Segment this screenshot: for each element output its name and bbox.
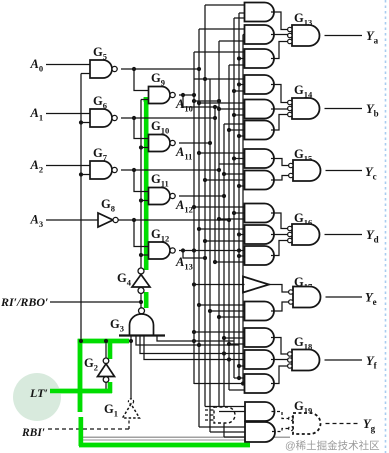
wire RI RBO input — [50, 301, 141, 303]
junction enable at G11 — [139, 198, 143, 202]
wire b3 input 1 — [224, 123, 245, 125]
wire G4 input — [140, 294, 142, 308]
matrix vertical v11 — [242, 35, 244, 385]
green wire bottom rail — [79, 443, 250, 448]
wire a1 input 2 — [239, 12, 245, 14]
inverter G1 dashed — [128, 399, 133, 404]
wire d1 input 3 — [219, 218, 245, 220]
page border dashed blue — [385, 0, 387, 453]
junction on left bus at G7 — [79, 172, 83, 176]
wire f3 to G18 — [271, 366, 288, 384]
wire G6 output — [121, 117, 215, 119]
junction A10 aux second start — [181, 93, 185, 97]
wire a3 input 2 junction — [237, 56, 241, 60]
wire a3 input 3 — [229, 64, 245, 66]
wire G2 output rail — [81, 340, 131, 342]
wire A12 output — [179, 195, 224, 197]
matrix vertical v2 — [198, 29, 200, 427]
wire d3 to G16 — [271, 241, 288, 256]
wire d1 input 2 — [234, 212, 245, 214]
wire stub into G5 lower input — [81, 73, 90, 75]
junction A13 line — [192, 248, 196, 252]
junction A13 line cross — [237, 248, 241, 252]
wire g0 input 1 dashed — [205, 409, 214, 411]
matrix vertical v10 — [238, 13, 240, 378]
inverter G2 — [103, 358, 109, 364]
wire G2 input — [105, 382, 107, 391]
wire f1 input 2 junction — [222, 336, 226, 340]
wire G8 to G12 input — [134, 220, 149, 247]
wire b3 input 3 junction — [237, 134, 241, 138]
wire e2 input 2 — [210, 310, 245, 312]
wire b3 input 2 junction — [227, 128, 231, 132]
wire f1 input 1 junction — [192, 330, 196, 334]
wire a1 to G13 — [271, 12, 288, 30]
wire f2 input 3 — [239, 365, 245, 367]
wire g2 input 2 — [210, 431, 245, 433]
wire g2 input 1 — [199, 426, 245, 428]
wire e1 to G17 — [269, 285, 289, 293]
and gate b1 — [245, 75, 275, 94]
junction G2 output redraw — [104, 339, 108, 343]
junction G6 output at matrix — [213, 116, 217, 120]
junction blanking a — [197, 343, 201, 347]
junction G5 output at matrix — [197, 67, 201, 71]
wire d1 to G16 — [271, 213, 288, 229]
nand G5 — [90, 60, 112, 78]
wire b2 input 2 junction — [217, 107, 221, 111]
and gate d2 — [245, 225, 275, 244]
wire c1 input 1 junction — [197, 151, 201, 155]
wire Ya output — [325, 35, 363, 37]
matrix vertical v3 — [204, 5, 206, 407]
blanking wire a — [136, 336, 239, 346]
wire b2 to G14 — [271, 108, 288, 111]
nand G12 — [149, 242, 171, 259]
wire c1 input 3 — [219, 163, 245, 165]
green stub into G9 — [144, 97, 150, 102]
wire d2 input 2 — [239, 234, 245, 236]
matrix vertical v7 — [223, 124, 225, 437]
wire b3 to G14 — [271, 115, 288, 131]
junction G2 output — [104, 339, 108, 343]
wire g1 input 1 — [205, 406, 245, 408]
matrix vertical v8 — [228, 65, 230, 390]
green wire G4 output up — [144, 97, 149, 270]
wire d3 input 3 — [215, 261, 245, 263]
wire A13 aux — [183, 251, 205, 259]
wire c1 input 1 — [199, 152, 245, 154]
wire A11 output — [179, 142, 210, 144]
and gate g2 — [245, 422, 275, 442]
and gate d3 — [245, 246, 275, 265]
wire f3 input 3 — [229, 389, 245, 391]
wire G5 to G9 input — [134, 69, 149, 91]
junction A13 aux start — [181, 248, 185, 252]
junction blanking d — [192, 339, 196, 343]
wire a2 input 3 — [219, 40, 245, 42]
green wire LT input overlay — [50, 389, 112, 394]
green wire G3 to G4 to NAND column — [144, 292, 149, 308]
wire c2 input 1 junction — [222, 172, 226, 176]
input wire A2 — [46, 165, 90, 167]
gray bottom rail 2 — [83, 439, 250, 441]
buffer e1 — [243, 277, 269, 293]
junction G7 output — [132, 168, 136, 172]
wire G11 lower input stub — [141, 200, 149, 202]
wire RBI to G1 dashed — [128, 419, 130, 429]
wire b3 input 2 — [229, 129, 245, 131]
junction A11 at matrix — [208, 141, 212, 145]
wire b2 input 1 junction — [197, 101, 201, 105]
wire b1 input 1 — [194, 78, 245, 80]
nand G15 — [293, 160, 321, 181]
wire b3 input 3 — [239, 135, 245, 137]
junction A10 aux second cross — [213, 105, 217, 109]
and gate g1 — [245, 402, 275, 421]
and gate f2 — [245, 350, 275, 369]
matrix vertical v1 — [193, 52, 195, 384]
wire G5 output — [121, 68, 199, 70]
junction A12 at matrix — [222, 194, 226, 198]
and gate f3 — [245, 374, 275, 393]
svg-text:LT′: LT′ — [29, 386, 48, 400]
wire a2 to G13 — [271, 35, 288, 36]
gray bottom rail — [83, 436, 290, 438]
green wire G2 to G3 — [78, 339, 129, 344]
junction G7 output at matrix — [217, 168, 221, 172]
wire A10 output — [179, 94, 194, 96]
wire b1 input 3 — [234, 90, 245, 92]
junction A10 main — [192, 93, 196, 97]
wire G10 lower input stub — [141, 147, 149, 149]
wire a3 input 1 — [194, 51, 245, 53]
wire e1 input junction — [192, 282, 196, 286]
junction f3 input 1 at v10 — [237, 376, 241, 380]
and gate f1 — [245, 328, 275, 347]
and gate b2 — [245, 100, 275, 119]
and gate c2 — [245, 171, 275, 190]
LT watermark circle — [13, 373, 61, 421]
junction enable at G10 — [139, 145, 143, 149]
wire b2 input 2 — [219, 108, 245, 110]
nand G10 — [149, 135, 171, 152]
wire G9 lower input stub — [141, 99, 149, 101]
wire G4 output bus — [140, 100, 142, 268]
matrix vertical v6 — [218, 41, 220, 412]
wire d1 input 1 — [194, 206, 245, 208]
wire d3 input 2 junction — [237, 254, 241, 258]
wire d2 input 3 junction — [203, 239, 207, 243]
wire g1 input 2 — [219, 411, 245, 413]
wire b2 input 3 junction — [232, 113, 236, 117]
green wire LT input — [50, 389, 112, 394]
wire f1 to G18 — [271, 338, 288, 355]
wire b1 input 2 junction — [237, 82, 241, 86]
G3 input bar — [119, 334, 165, 336]
matrix vertical v5 — [214, 107, 216, 262]
wire f1 input 3 — [229, 343, 245, 345]
nand G16 — [292, 224, 320, 245]
wire d1 input 3 junction — [217, 217, 221, 221]
wire c2 input 3 junction — [237, 184, 241, 188]
wire c2 to G15 — [271, 176, 289, 181]
wire left vertical bus — [80, 74, 82, 342]
wire c1 to G15 — [271, 159, 289, 166]
wire f3 input 2 — [194, 383, 245, 385]
wire d2 input 2 junction — [237, 232, 241, 236]
wire G7 to G11 input — [134, 170, 149, 192]
inverter G8 — [98, 213, 113, 227]
wire RBI input dashed — [48, 428, 129, 430]
junction blanking b — [222, 351, 226, 355]
junction A10 aux — [192, 99, 196, 103]
green wire left vertical — [78, 339, 83, 412]
wire G12 lower input stub — [141, 254, 149, 256]
wire a2 input 1 — [199, 28, 245, 30]
wire f2 input 3 junction — [237, 364, 241, 368]
wire g2 to G19 dashed — [272, 429, 289, 432]
wire stub into G7 lower input — [81, 174, 90, 176]
wire d1 input 1 junction — [192, 205, 196, 209]
green wire G2 input — [108, 382, 113, 393]
junction on left bus at G6 — [79, 120, 83, 124]
junction G8 output at matrix — [227, 218, 231, 222]
wire stub into G6 lower input — [81, 122, 90, 124]
wire a2 input 2 — [243, 34, 245, 36]
wire e2 input 1 — [199, 304, 245, 306]
wire Yb output — [325, 108, 363, 110]
wire G2 output vertical — [105, 341, 107, 358]
wire c2 input 2 — [205, 179, 245, 181]
and G3 — [139, 308, 145, 314]
green wire G2 to G3 overlay — [78, 339, 129, 344]
wire G6 to G10 input — [134, 118, 149, 139]
wire f1 input 1 — [194, 331, 245, 333]
input wire A0 — [46, 64, 90, 66]
nand G11 — [149, 188, 171, 205]
junction G5 output — [132, 67, 136, 71]
wire Yc output — [326, 170, 363, 172]
wire e2 input 3 — [219, 316, 245, 318]
wire Yd output — [325, 234, 363, 236]
wire f1 input 3 junction — [227, 342, 231, 346]
blanking wire b — [140, 336, 245, 354]
svg-text:RBI′: RBI′ — [21, 427, 45, 439]
wire a3 input 2 — [239, 58, 245, 60]
wire g0 input 3 dashed — [205, 419, 214, 421]
wire f3 input 1 — [234, 377, 245, 379]
wire b2 input 1 — [199, 102, 245, 104]
and gate a2 — [245, 25, 275, 44]
junction rail to G1 wire — [129, 339, 133, 343]
wire c2 input 2 junction — [203, 178, 207, 182]
and gate b3 — [245, 121, 275, 140]
wire A13 output — [179, 250, 245, 252]
nand G18 — [292, 350, 320, 371]
wire b2 input 3 — [234, 114, 245, 116]
wire b1 to G14 — [271, 85, 288, 103]
junction G6 output — [132, 116, 136, 120]
wire f2 to G18 — [271, 359, 288, 362]
wire d2 input 1 — [199, 228, 245, 230]
wire A10 aux — [194, 100, 219, 102]
junction A13 aux end — [203, 256, 207, 260]
junction d3 input 3 start — [213, 260, 217, 264]
green wire left vertical lower overlay — [79, 417, 84, 446]
junction G8 output — [132, 218, 136, 222]
blanking wire c — [144, 336, 245, 360]
junction enable at G12 — [139, 253, 143, 257]
green wire G2 output — [108, 339, 113, 359]
and gate e2 — [245, 302, 275, 321]
buffer G4 — [138, 268, 144, 274]
and gate a3 — [245, 49, 275, 68]
svg-text:@稀土掘金技术社区: @稀土掘金技术社区 — [285, 439, 380, 452]
wire a1 input 3 — [234, 17, 245, 19]
nand G17 — [293, 287, 321, 308]
blanking wire d — [157, 336, 234, 342]
nand G13 — [292, 25, 320, 46]
wire f1 input 2 — [224, 337, 245, 339]
wire LT input — [50, 390, 106, 392]
wire a3 to G13 — [271, 42, 288, 59]
wire e1 input — [194, 284, 245, 286]
nand G14 — [292, 98, 320, 119]
wire d2 input 3 — [205, 240, 245, 242]
junction blanking c — [227, 357, 231, 361]
nand G19 — [293, 413, 321, 434]
wire e2 to G17 — [271, 302, 289, 311]
green wire bottom rail overlay — [79, 443, 250, 448]
wire g2 input 3 — [224, 436, 245, 438]
green wire left vertical lower — [79, 417, 84, 446]
junction G2 output rail redraw — [79, 339, 83, 343]
svg-text:RI′/RBO′: RI′/RBO′ — [0, 295, 48, 309]
wire Yf output — [325, 359, 363, 361]
and gate c1 — [245, 149, 274, 168]
wire c1 input 2 junction — [232, 156, 236, 160]
and gate g0 dashed — [214, 407, 235, 423]
wire b1 input 2 — [239, 84, 245, 86]
wire g1 to G19 dashed — [272, 412, 289, 419]
wire d2 input 1 junction — [197, 227, 201, 231]
junction at G2 output rail — [79, 339, 83, 343]
wire c2 input 3 — [239, 185, 245, 187]
wire d2 to G16 — [271, 234, 288, 236]
wire g0 input 2 dashed — [205, 414, 214, 416]
wire d3 input 2 — [239, 255, 245, 257]
junction A10 aux at v6 — [217, 99, 221, 103]
junction b1 input 1 at v3 — [203, 77, 207, 81]
matrix vertical v9 — [233, 18, 235, 378]
wire G8 output — [118, 219, 229, 221]
wire b1 input 3 junction — [232, 89, 236, 93]
wire Yg output dashed — [326, 423, 360, 425]
nand G6 — [90, 109, 112, 127]
wire a1 input 1 — [205, 4, 245, 6]
input wire A1 — [46, 113, 90, 115]
wire G7 output — [121, 169, 219, 171]
wire d1 input 2 junction — [232, 211, 236, 215]
nand G9 — [149, 87, 171, 104]
junction RI RBO at G4 input — [139, 300, 143, 304]
wire e2 input 3 junction — [217, 315, 221, 319]
wire A10 aux second — [183, 95, 219, 107]
matrix vertical v4 — [209, 79, 211, 432]
and gate a1 — [245, 3, 275, 22]
wire e2 input 1 junction — [197, 303, 201, 307]
wire c1 input 2 — [234, 158, 245, 160]
wire Ye output — [326, 296, 363, 298]
junction f3 input 2 at v11 — [241, 381, 245, 385]
nand G7 — [90, 161, 112, 179]
and gate d1 — [245, 204, 275, 223]
wire G1 to G3 bar — [130, 336, 132, 405]
input wire A3 — [46, 219, 98, 221]
wire c2 input 1 — [224, 173, 245, 175]
green wire left vertical overlay — [78, 339, 83, 412]
wire e2 input 2 junction — [208, 309, 212, 313]
